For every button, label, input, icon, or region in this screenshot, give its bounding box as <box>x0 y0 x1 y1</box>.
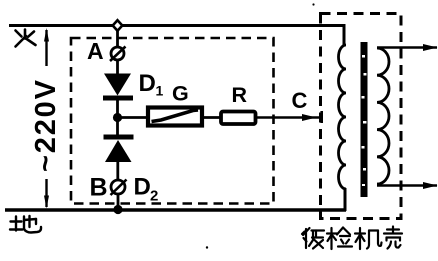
node junction (D1/D2/G) <box>113 113 122 122</box>
wire secondary bottom output with arrow <box>377 182 438 189</box>
svg-text:R: R <box>232 83 248 107</box>
transformer core <box>361 42 368 197</box>
terminal A (circle with slash) <box>110 47 126 62</box>
dashed enclosure of tester <box>71 38 274 204</box>
svg-text:~220V: ~220V <box>30 79 62 172</box>
svg-text:D: D <box>139 70 156 97</box>
label 被检机壳 <box>302 227 402 250</box>
transformer primary winding <box>339 45 347 189</box>
scan speck <box>312 3 314 5</box>
node junction B on bottom rail <box>113 205 122 214</box>
node junction diamond on top rail <box>113 20 123 31</box>
label 火 (live wire) <box>16 30 36 47</box>
wire secondary top output with arrow <box>377 44 438 51</box>
label D2 <box>134 174 159 205</box>
diode D1 <box>103 74 133 101</box>
wire top rail (live line) <box>9 24 346 46</box>
svg-text:2: 2 <box>150 188 158 205</box>
dashed enclosure 被检机壳 (machine casing under test) <box>321 14 402 219</box>
svg-text:1: 1 <box>156 83 164 99</box>
resistor R <box>221 112 256 125</box>
scan speck <box>206 246 208 248</box>
transformer secondary winding <box>377 48 389 184</box>
svg-text:A: A <box>87 38 104 64</box>
label D1 <box>139 70 164 99</box>
diode D2 <box>104 135 134 163</box>
dimension arrow upper (220V span) <box>44 28 49 66</box>
svg-text:D: D <box>134 174 151 201</box>
wire bottom rail (ground line) <box>5 188 346 211</box>
galvanometer G (box with diagonal) <box>148 108 202 126</box>
wire vertical branch (A-D1-junction) <box>116 31 119 74</box>
wire D1 to junction <box>116 100 119 135</box>
svg-text:C: C <box>292 88 308 113</box>
label 地 (earth/ground) <box>10 216 41 233</box>
wire R to probe C with arrow <box>255 111 322 123</box>
dimension arrow lower (220V span) <box>44 179 49 209</box>
terminal B (circle with slash) <box>111 180 127 196</box>
wire D2 to B <box>116 160 119 181</box>
svg-text:G: G <box>172 82 189 106</box>
wire junction to G <box>118 116 149 119</box>
wire B to bottom rail <box>117 194 120 210</box>
svg-text:B: B <box>90 174 108 202</box>
wire G to R <box>202 116 221 119</box>
